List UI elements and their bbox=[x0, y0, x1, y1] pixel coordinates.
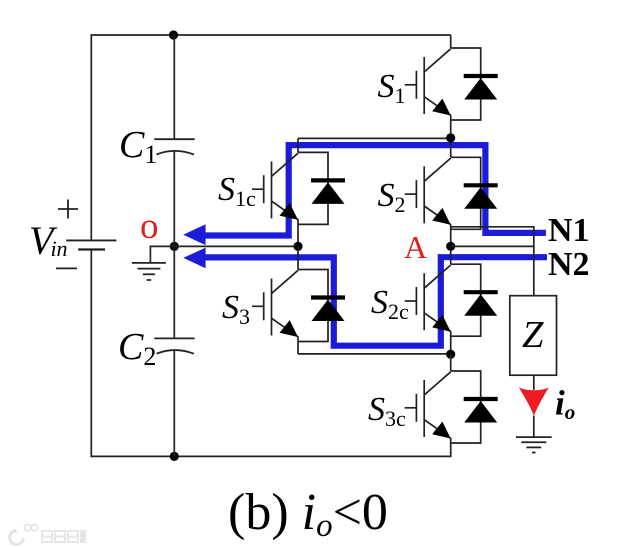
wire C1 top segment bbox=[173, 34, 175, 139]
wire node A to S2c collector bbox=[450, 246, 452, 264]
wire S1c emitter to junction bbox=[297, 219, 299, 246]
wire arrow to ground bbox=[533, 416, 535, 438]
wire bottom DC- rail bbox=[91, 455, 450, 457]
wire S3 emitter to S2c/S3c junction bbox=[298, 353, 451, 355]
ground stub at node o bbox=[150, 246, 174, 263]
wire S3 collector up bbox=[297, 246, 299, 269]
antiparallel diode of S1c bbox=[298, 152, 345, 224]
transistor S3c bbox=[405, 372, 451, 439]
wire S3 emitter down bbox=[297, 337, 299, 354]
wire S2c emitter to junction bbox=[450, 331, 452, 354]
wire top DC+ rail bbox=[91, 34, 450, 36]
svg-text:(b) io<0: (b) io<0 bbox=[228, 484, 388, 544]
blue current path N1 bbox=[203, 145, 546, 235]
ground symbol at node o bbox=[132, 263, 166, 280]
blue current path N2 bbox=[203, 257, 547, 346]
antiparallel diode of S3c bbox=[451, 371, 498, 443]
wire node o to C2 bbox=[173, 246, 175, 338]
wire node A to N2 rail bbox=[451, 246, 534, 295]
wire C1 to node o bbox=[173, 152, 175, 247]
junction node A bbox=[446, 242, 455, 251]
antiparallel diode of S1 bbox=[451, 48, 498, 120]
wire S3c emitter to bottom rail bbox=[450, 438, 452, 457]
junction node o bbox=[170, 242, 179, 251]
wire node N1 stub bbox=[451, 227, 534, 247]
transistor S2 bbox=[405, 158, 451, 225]
label Vin minus sign bbox=[56, 267, 77, 269]
label Vin plus sign bbox=[58, 200, 78, 219]
blue arrowhead N2 at node o bbox=[183, 248, 205, 269]
transistor S1 bbox=[405, 49, 451, 116]
ground symbol at load bbox=[516, 437, 552, 452]
wire S1c collector up bbox=[297, 138, 299, 152]
svg-text:o: o bbox=[140, 206, 159, 247]
transistor S2c bbox=[405, 265, 451, 332]
wire left rail upper (Vin+ to top) bbox=[90, 34, 92, 240]
junction S1c/S3 at node o rail bbox=[293, 242, 302, 251]
junction C2 bottom tap bbox=[170, 452, 179, 461]
svg-text:N1: N1 bbox=[548, 212, 590, 249]
antiparallel diode of S2 bbox=[451, 157, 498, 229]
wire Z to current arrow bbox=[533, 375, 535, 390]
wire S2 emitter to node A bbox=[450, 224, 452, 246]
load Z box bbox=[510, 296, 557, 376]
antiparallel diode of S2c bbox=[451, 264, 498, 336]
svg-text:Z: Z bbox=[522, 314, 544, 356]
voltage source Vin battery symbol bbox=[66, 240, 116, 249]
transistor S3 bbox=[252, 270, 298, 337]
antiparallel diode of S3 bbox=[298, 270, 345, 342]
wire node o horizontal bbox=[174, 245, 298, 247]
wire left rail lower (Vin- to bottom) bbox=[90, 251, 92, 458]
transistor S1c bbox=[252, 153, 298, 220]
current arrow io (red) bbox=[519, 387, 549, 415]
wire junction to S2 collector bbox=[450, 138, 452, 157]
svg-text:N2: N2 bbox=[548, 246, 590, 283]
wire C2 to bottom rail bbox=[173, 351, 175, 457]
capacitor C1 bbox=[154, 139, 194, 154]
capacitor C2 bbox=[154, 338, 194, 353]
wire top rail to S1 collector bbox=[450, 35, 452, 48]
junction S2c/S3c bbox=[446, 350, 455, 359]
blue arrowhead N1 at node o bbox=[183, 224, 205, 245]
svg-text:A: A bbox=[404, 229, 427, 265]
wire S1 emitter to junction bbox=[450, 115, 452, 138]
junction S1/S2 bbox=[446, 133, 455, 142]
watermark logo bottom-left bbox=[8, 524, 86, 546]
wire junction to S3c collector bbox=[450, 354, 452, 371]
wire S1c collector rail to S1/S2 junction bbox=[298, 137, 451, 139]
junction C1 top tap bbox=[169, 30, 178, 39]
